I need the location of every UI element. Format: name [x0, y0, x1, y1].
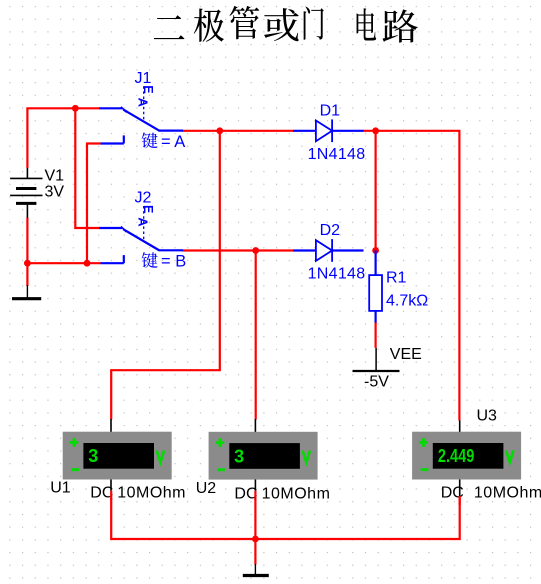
svg-text:3: 3: [234, 446, 244, 466]
svg-text:1N4148: 1N4148: [308, 266, 366, 283]
wire R1 bottom to VEE: [375, 322, 377, 348]
ground left: [12, 285, 41, 299]
wire D2 node down to U2: [255, 251, 257, 420]
svg-text:= B: = B: [161, 253, 186, 271]
wire U2 bottom to bus: [254, 498, 256, 539]
junction node J1 out: [216, 127, 223, 134]
svg-text:E: E: [141, 205, 155, 213]
wire D1 cathode to right rail down to U3: [363, 131, 460, 421]
wire V+ rail down to J2 pin: [75, 108, 99, 228]
wire bottom bus: [111, 498, 460, 539]
svg-text:D2: D2: [320, 222, 341, 239]
svg-text:VEE: VEE: [390, 346, 422, 363]
svg-text:U1: U1: [50, 479, 71, 496]
voltmeter U2: [209, 432, 318, 480]
label 键 = B for J2: [142, 252, 187, 270]
svg-text:U3: U3: [477, 407, 498, 424]
pin U1 top: [110, 419, 112, 432]
svg-text:= A: = A: [161, 133, 185, 151]
svg-text:J1: J1: [135, 70, 152, 87]
wire D1 node to D2 node vertical: [375, 131, 377, 251]
svg-text:-5V: -5V: [364, 373, 389, 390]
svg-text:2.449: 2.449: [438, 446, 474, 466]
pin U2 top: [254, 419, 256, 432]
svg-text:R1: R1: [386, 270, 407, 287]
svg-text:1N4148: 1N4148: [308, 146, 366, 163]
svg-text:D1: D1: [320, 103, 341, 120]
svg-text:10MOhm: 10MOhm: [262, 486, 331, 503]
title 二极管或门电路: [154, 6, 418, 43]
junction node D2 out: [372, 247, 379, 254]
diode D1 1N4148: [293, 103, 365, 163]
battery V1 3V: [10, 168, 64, 218]
svg-text:V1: V1: [45, 168, 65, 185]
junction node D1 out: [372, 127, 379, 134]
wire bottom rail: [26, 262, 100, 264]
svg-text:DC: DC: [234, 486, 257, 503]
ground bottom: [243, 564, 269, 576]
label 键 = A for J1: [142, 133, 186, 151]
pin U3 bottom: [459, 480, 461, 497]
wire battery top to J1 pin: [27, 108, 99, 168]
wire J1 output down-left to U1: [111, 131, 220, 420]
svg-text:A: A: [135, 217, 150, 227]
switch J1: [99, 70, 183, 144]
resistor R1 4.7kOhm: [369, 251, 428, 323]
svg-text:3V: 3V: [45, 184, 65, 201]
junction node J2 out: [252, 247, 259, 254]
wire bus to ground: [254, 539, 256, 565]
pin U2 bottom: [254, 480, 256, 491]
junction node bus/ground: [252, 536, 259, 543]
junction node V+ top: [72, 105, 79, 112]
junction node battery minus: [24, 260, 31, 267]
svg-text:4.7kΩ: 4.7kΩ: [386, 293, 428, 310]
voltmeter U3: [412, 432, 521, 480]
svg-text:U2: U2: [196, 480, 217, 497]
pin U3 top: [459, 420, 461, 432]
switch J2: [99, 190, 183, 264]
svg-text:10MOhm: 10MOhm: [117, 485, 186, 502]
svg-text:10MOhm: 10MOhm: [474, 485, 541, 502]
power VEE -5V: [353, 346, 422, 390]
svg-text:A: A: [135, 98, 150, 108]
junction node bottom rail: [84, 260, 91, 267]
pin U1 bottom: [110, 480, 112, 491]
svg-text:DC: DC: [90, 485, 113, 502]
wire J2 output to D2 anode: [183, 249, 294, 251]
diode D2 1N4148: [293, 222, 365, 282]
voltmeter U1: [63, 432, 172, 480]
wire J1 lower contact to bottom rail: [87, 144, 101, 264]
svg-text:E: E: [141, 85, 155, 93]
svg-text:3: 3: [88, 446, 98, 466]
wire J1 output to D1 anode: [183, 130, 294, 132]
wire battery bottom to ground: [26, 218, 28, 287]
svg-text:J2: J2: [135, 190, 152, 207]
